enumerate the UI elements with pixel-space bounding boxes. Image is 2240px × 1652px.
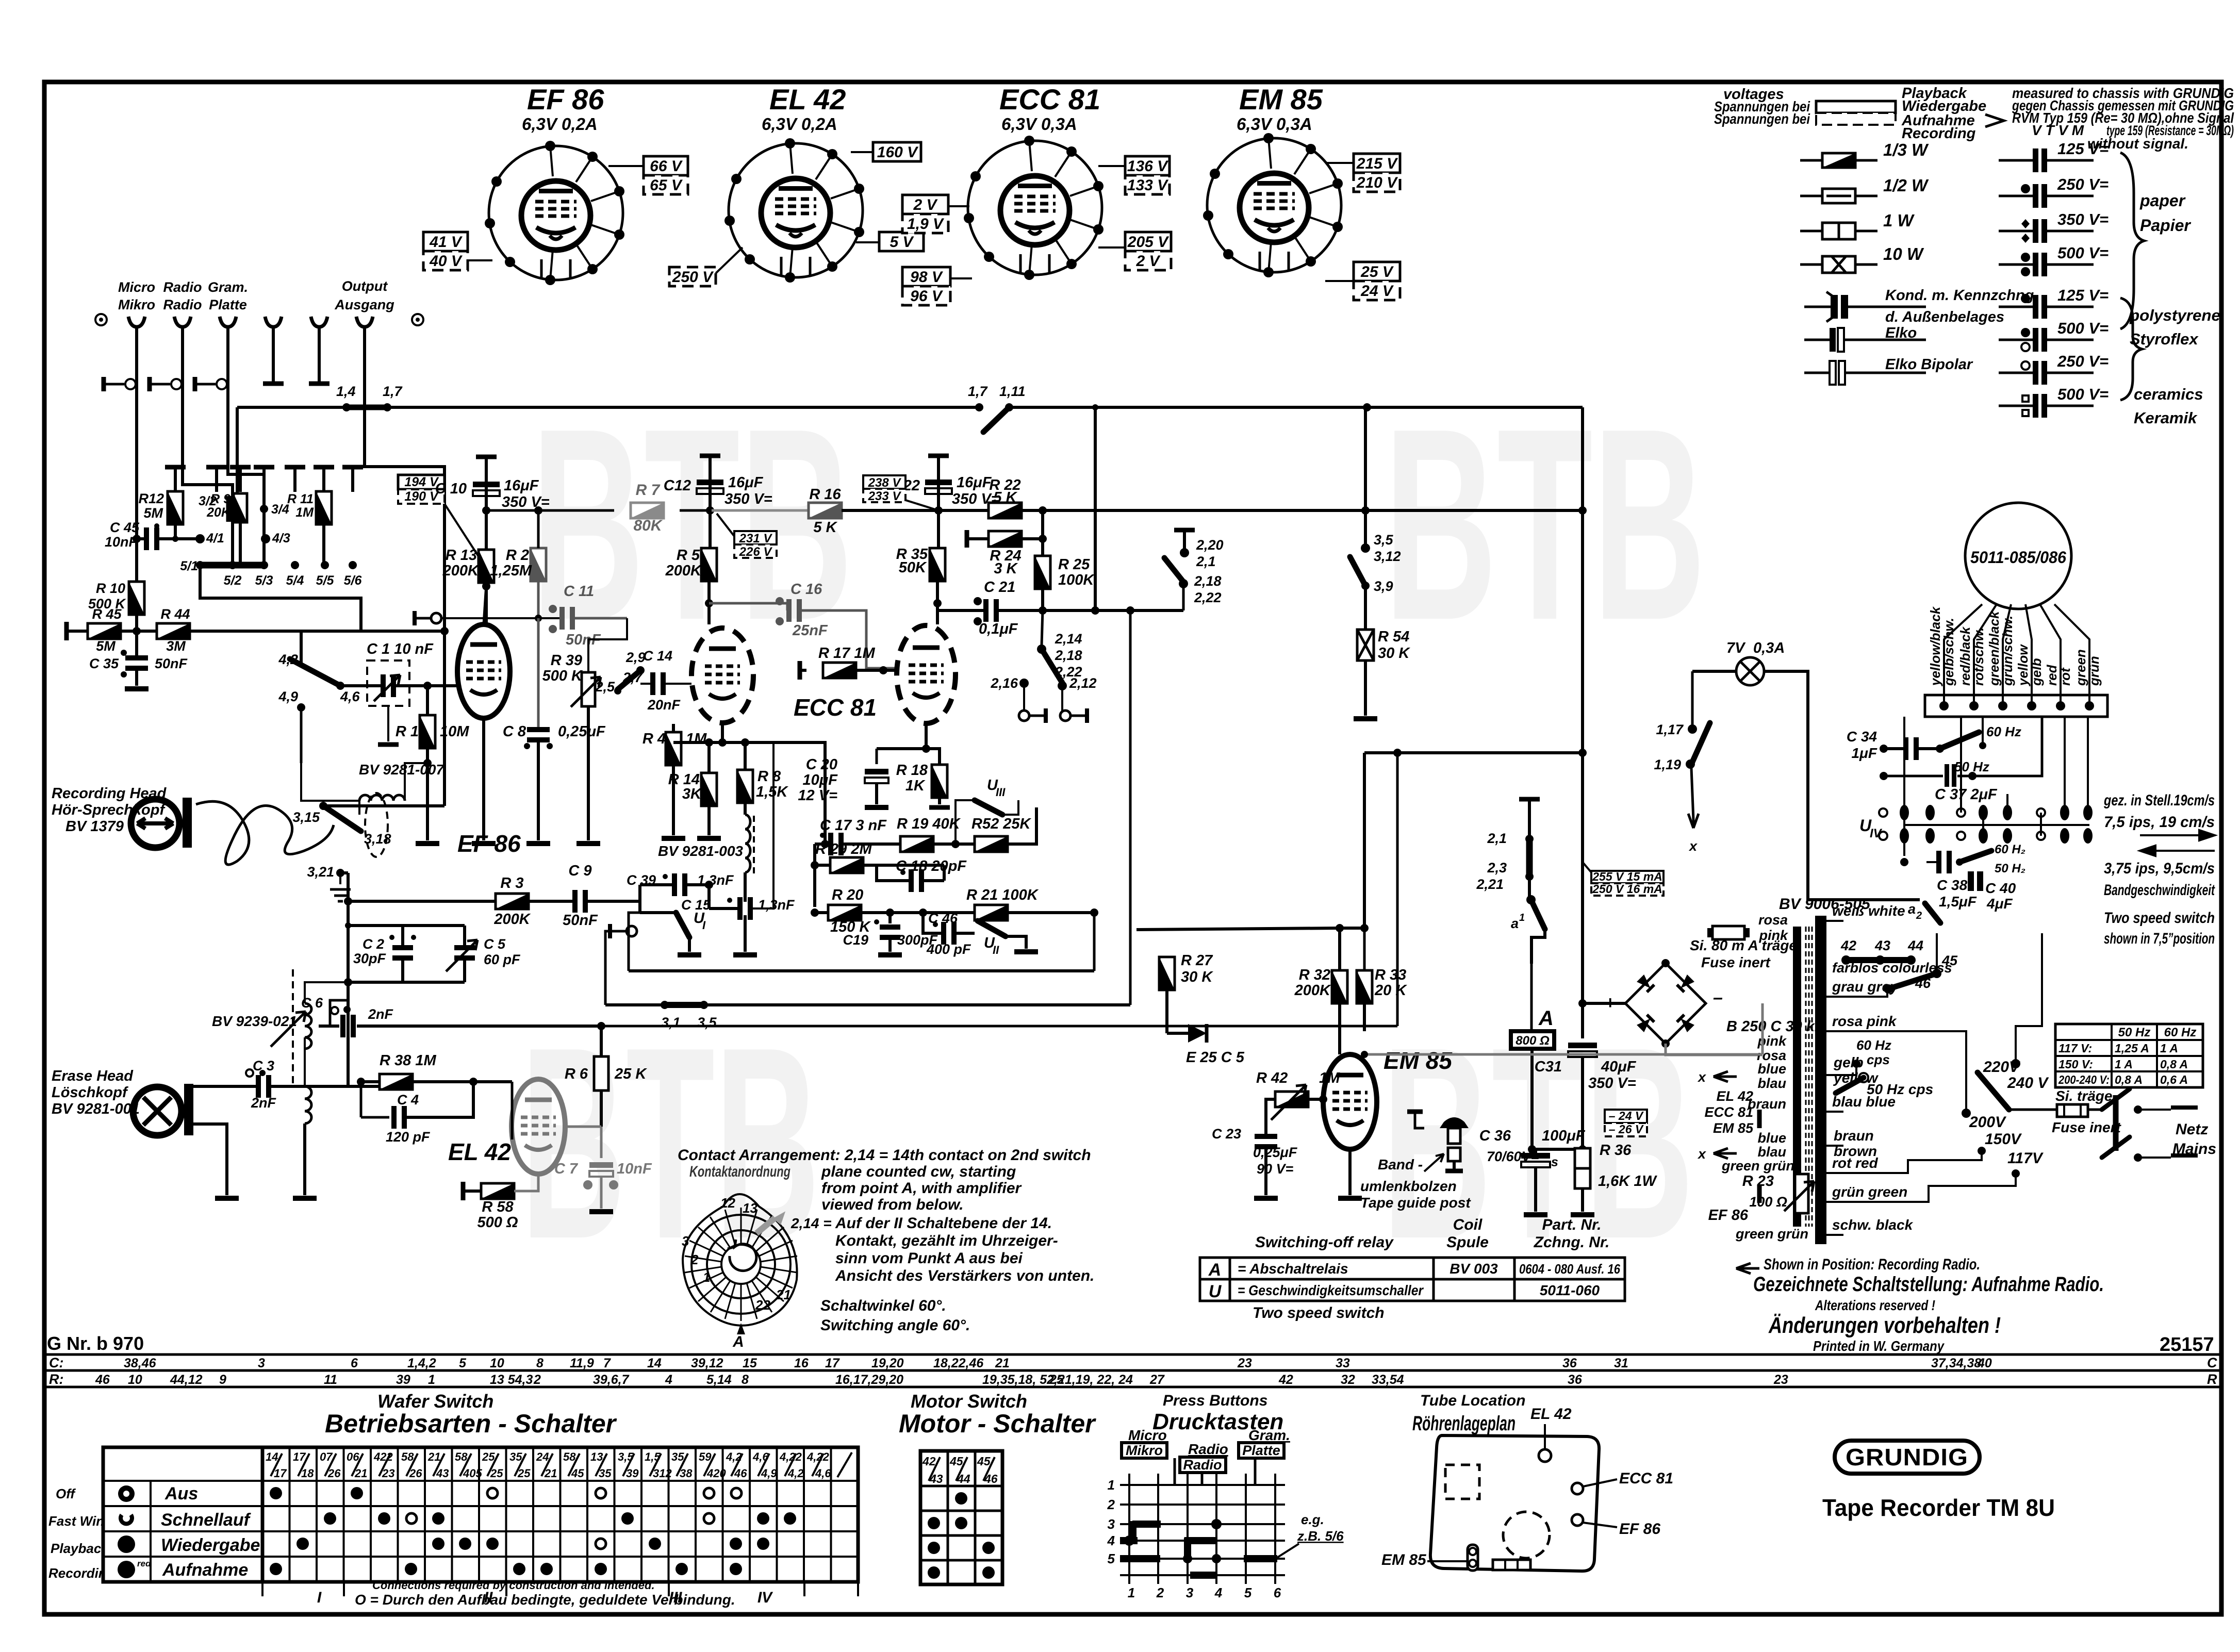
svg-text:45: 45: [949, 1455, 964, 1468]
svg-text:Tube Location: Tube Location: [1420, 1392, 1525, 1409]
svg-text:14: 14: [266, 1450, 278, 1463]
fuse table: [2055, 1024, 2203, 1087]
resistor R27 30K: [1159, 957, 1175, 990]
capacitor C2 30pF: [348, 924, 465, 927]
svg-text:25: 25: [1049, 1373, 1064, 1387]
wire rail2 gray: [710, 509, 809, 512]
svg-text:II: II: [993, 944, 999, 956]
svg-text:rosa: rosa: [1758, 912, 1788, 928]
svg-text:pink: pink: [1758, 928, 1788, 943]
svg-text:x: x: [1697, 1146, 1706, 1162]
svg-text:V T V M: V T V M: [2032, 122, 2084, 138]
ECC81 voltage box 2V/1,9V: [902, 195, 948, 214]
capacitor C19 300pF: [888, 913, 892, 923]
contact 1,17 1,19: [1688, 724, 1697, 734]
bank tbar: [314, 465, 334, 470]
svg-text:Gezeichnete Schaltstellung:: Gezeichnete Schaltstellung: Aufnahme Rad…: [1753, 1273, 2104, 1296]
svg-text:viewed from below.: viewed from below.: [821, 1196, 964, 1213]
svg-text:R 42: R 42: [1256, 1070, 1288, 1086]
svg-text:1,5K: 1,5K: [756, 784, 788, 800]
svg-text:1: 1: [428, 1373, 435, 1387]
svg-text:36: 36: [1562, 1356, 1577, 1370]
svg-text:Kontakt, gezählt im Uhrzeige: Kontakt, gezählt im Uhrzeiger-: [835, 1232, 1058, 1249]
svg-text:205 V: 205 V: [1127, 234, 1170, 251]
switch 60/50Hz upper: [1936, 745, 1944, 753]
UIV row lines: [1904, 824, 2089, 826]
svg-text:120 pF: 120 pF: [386, 1129, 431, 1145]
legend cap kennzeichnung: [1804, 306, 1926, 308]
svg-text:Radio: Radio: [163, 279, 202, 295]
press grid: [1128, 1474, 1130, 1584]
svg-text:25 V: 25 V: [1360, 263, 1394, 280]
svg-text:5 K: 5 K: [813, 519, 837, 536]
svg-text:Tape guide post: Tape guide post: [1360, 1195, 1471, 1211]
input jack 6: [356, 317, 373, 327]
svg-text:Elko Bipolar: Elko Bipolar: [1885, 356, 1973, 373]
svg-text:rot/schw.: rot/schw.: [1971, 627, 1986, 686]
contact wheel: [683, 1194, 797, 1326]
svg-text:e.g.: e.g.: [1301, 1512, 1324, 1527]
svg-text:C 10: C 10: [435, 481, 467, 497]
svg-text:2 V: 2 V: [1135, 253, 1161, 270]
svg-text:from point A, with amplifi: from point A, with amplifier: [821, 1180, 1023, 1197]
svg-text:C31: C31: [1535, 1059, 1562, 1075]
svg-text:plane counted cw, starting: plane counted cw, starting: [821, 1163, 1016, 1180]
svg-text:C 9: C 9: [568, 863, 591, 879]
coil BV9281-007: [359, 795, 405, 801]
svg-text:4,22: 4,22: [779, 1450, 802, 1463]
svg-text:blau: blau: [1757, 1144, 1786, 1160]
svg-text:15: 15: [743, 1356, 757, 1370]
svg-text:1,25M: 1,25M: [490, 563, 532, 579]
svg-text:3,21: 3,21: [307, 864, 334, 880]
svg-text:EM 85: EM 85: [1381, 1551, 1427, 1568]
coil to head: [305, 1086, 311, 1124]
svg-text:5/3: 5/3: [255, 573, 273, 588]
svg-text:24: 24: [536, 1450, 549, 1463]
C/R row lines: [44, 1354, 2221, 1387]
svg-text:2,18: 2,18: [1055, 648, 1082, 663]
svg-text:233 V: 233 V: [868, 489, 902, 503]
svg-text:C 40: C 40: [1985, 880, 2016, 896]
svg-text:a: a: [1511, 916, 1519, 931]
EM85 box wires: [1325, 163, 1354, 281]
svg-text:C 20: C 20: [806, 756, 837, 773]
bank tbar: [254, 465, 274, 470]
svg-text:12: 12: [720, 1195, 735, 1211]
svg-text:Netz: Netz: [2176, 1121, 2208, 1138]
svg-text:1M: 1M: [1319, 1070, 1340, 1086]
svg-text:Switching angle 60°.: Switching angle 60°.: [820, 1317, 970, 1334]
svg-text:3: 3: [682, 1233, 689, 1249]
svg-text:60 pF: 60 pF: [484, 952, 521, 967]
svg-text:1,11: 1,11: [999, 384, 1026, 399]
contact 3/4: [260, 505, 268, 513]
svg-text:EF 86: EF 86: [1708, 1207, 1749, 1224]
svg-text:C 37 2μF: C 37 2μF: [1935, 786, 1998, 803]
svg-text:weiß white: weiß white: [1832, 903, 1905, 919]
svg-text:2 V: 2 V: [913, 196, 938, 213]
EM85 tube: [1323, 1054, 1377, 1149]
legend voltage sample box: [1816, 101, 1896, 113]
contact 1,4 1,7: [342, 403, 351, 411]
svg-text:Styroflex: Styroflex: [2130, 330, 2199, 348]
svg-text:200K: 200K: [1294, 982, 1331, 999]
svg-text:44: 44: [1907, 938, 1923, 953]
svg-text:grün: grün: [2086, 656, 2102, 686]
capacitor C7 10nF gray: [600, 1127, 603, 1158]
svg-text:1,17: 1,17: [1656, 722, 1684, 737]
svg-text:4,2: 4,2: [787, 1467, 804, 1480]
svg-text:50 Hz: 50 Hz: [2118, 1026, 2151, 1039]
svg-text:R 58: R 58: [482, 1199, 514, 1215]
svg-text:Ausgang: Ausgang: [334, 297, 394, 312]
svg-text:4/3: 4/3: [272, 531, 290, 546]
tube base ECC81 outer circle: [968, 141, 1102, 275]
contact 2,20 2,1: [1174, 528, 1195, 533]
svg-text:133 V: 133 V: [1127, 177, 1169, 194]
jack5 stub: [318, 348, 321, 382]
svg-text:Shown in Position: Recording: Shown in Position: Recording Radio.: [1764, 1256, 1980, 1273]
svg-text:ECC 81: ECC 81: [1704, 1104, 1753, 1120]
connector strip: [1493, 1560, 1530, 1570]
contact 3,5 3,12 3,9: [1364, 407, 1367, 548]
svg-text:33,54: 33,54: [1372, 1373, 1404, 1387]
svg-text:4μF: 4μF: [1986, 896, 2013, 912]
svg-text:C 34: C 34: [1847, 729, 1877, 745]
svg-text:38,46: 38,46: [124, 1356, 157, 1370]
svg-text:16: 16: [794, 1356, 809, 1370]
svg-text:45: 45: [977, 1455, 991, 1468]
capacitor C23 0,25uF: [1255, 1134, 1277, 1139]
svg-text:C 14: C 14: [643, 648, 672, 664]
svg-text:420: 420: [706, 1467, 726, 1480]
erase osc coil: [305, 1003, 311, 1049]
svg-text:Spule: Spule: [1446, 1234, 1489, 1251]
legend brace styroflex: [2120, 298, 2142, 400]
svg-text:C19: C19: [843, 932, 868, 948]
EL42 voltage box 250V: [669, 267, 716, 286]
capacitor C35 50nF: [135, 654, 138, 657]
resistor R9 20K: [234, 493, 247, 522]
tube base EF86 inner circle: [521, 181, 590, 250]
svg-text:Platte: Platte: [209, 297, 247, 312]
svg-text:150V: 150V: [1985, 1131, 2022, 1148]
svg-text:2,18: 2,18: [1194, 573, 1222, 589]
svg-text:3: 3: [1186, 1585, 1194, 1600]
legend cap Elko: [1804, 339, 1926, 341]
svg-text:1,7: 1,7: [383, 384, 403, 399]
svg-text:136 V: 136 V: [1127, 158, 1169, 175]
svg-text:2,12: 2,12: [1069, 675, 1097, 691]
svg-text:A: A: [1538, 1007, 1554, 1030]
svg-text:s: s: [1551, 1155, 1558, 1169]
EM85 voltage box 25V/24V: [1354, 262, 1400, 281]
svg-text:5,14: 5,14: [706, 1373, 732, 1387]
svg-text:R 10: R 10: [96, 581, 125, 596]
svg-text:R 36: R 36: [1600, 1142, 1632, 1159]
svg-text:C 8: C 8: [503, 723, 526, 740]
svg-text:EM 85: EM 85: [1713, 1120, 1754, 1136]
EF86 tube: [457, 624, 510, 718]
svg-text:BV 003: BV 003: [1450, 1261, 1498, 1277]
svg-text:22: 22: [755, 1297, 770, 1313]
svg-text:Radio: Radio: [1188, 1441, 1228, 1457]
svg-text:Radio: Radio: [163, 297, 202, 312]
svg-text:GRUNDIG: GRUNDIG: [1846, 1444, 1968, 1471]
switch a2: [1925, 903, 1940, 923]
voltage box 194V/190V: [398, 475, 444, 489]
svg-text:350 V=: 350 V=: [1588, 1075, 1636, 1092]
svg-text:41 V: 41 V: [429, 234, 463, 251]
bank to lower wire: [200, 565, 361, 631]
svg-text:10M: 10M: [440, 723, 469, 740]
svg-text:Elko: Elko: [1885, 325, 1917, 341]
svg-text:80K: 80K: [633, 517, 663, 534]
svg-text:3: 3: [258, 1356, 265, 1370]
svg-text:1μF: 1μF: [1851, 745, 1877, 761]
svg-text:Löschkopf: Löschkopf: [52, 1084, 129, 1101]
thick traces: [1132, 1521, 1161, 1528]
svg-text:21: 21: [354, 1467, 367, 1480]
svg-text:Gram.: Gram.: [208, 279, 248, 295]
svg-text:0,3A: 0,3A: [1753, 640, 1785, 656]
svg-text:19,20: 19,20: [871, 1356, 904, 1370]
svg-text:800 Ω: 800 Ω: [1516, 1034, 1550, 1048]
svg-text:60 Hz: 60 Hz: [1986, 724, 2021, 739]
svg-text:R 27: R 27: [1181, 952, 1213, 969]
svg-text:z.B. 5/6: z.B. 5/6: [1297, 1528, 1344, 1544]
svg-text:grün/schw.: grün/schw.: [2000, 616, 2015, 686]
svg-text:5: 5: [459, 1356, 467, 1370]
svg-text:R 54: R 54: [1378, 629, 1409, 645]
capacitor C4 120pF: [360, 1082, 363, 1117]
EL42 voltage box 5V: [879, 232, 924, 251]
svg-text:50nF: 50nF: [563, 912, 598, 929]
EF86 hole: [1572, 1514, 1583, 1526]
svg-text:5/5: 5/5: [316, 573, 335, 588]
resistor R24 3K: [965, 530, 969, 548]
svg-text:200-240 V:: 200-240 V:: [2058, 1073, 2110, 1086]
svg-text:3: 3: [1108, 1516, 1115, 1532]
resistor R2 1,25M: [531, 548, 546, 581]
tube base EM85 inner circle: [1240, 173, 1309, 242]
coil BV9281-003: [745, 815, 750, 872]
svg-text:O = Durch den Aufbau beding: O = Durch den Aufbau bedingte, geduldete…: [355, 1592, 735, 1608]
transformer core: [1793, 927, 1801, 1227]
svg-text:Aufnahme: Aufnahme: [162, 1560, 248, 1580]
svg-text:42: 42: [1840, 938, 1856, 953]
svg-text:18: 18: [301, 1467, 314, 1480]
svg-text:5: 5: [1244, 1585, 1252, 1600]
svg-text:6,3V 0,3A: 6,3V 0,3A: [1237, 114, 1312, 134]
input contact 1: [105, 383, 124, 386]
resistor R10 500K: [129, 582, 144, 615]
svg-text:350 V=: 350 V=: [724, 491, 772, 507]
svg-text:2,21: 2,21: [1476, 877, 1504, 892]
input jack 1: [128, 317, 145, 327]
svg-text:BV 9239-021: BV 9239-021: [212, 1013, 297, 1029]
svg-text:EM 85: EM 85: [1383, 1047, 1453, 1074]
svg-text:8: 8: [742, 1373, 749, 1387]
svg-text:250 V 16 mA: 250 V 16 mA: [1592, 882, 1662, 896]
output jack wire: [365, 348, 444, 806]
svg-text:1K: 1K: [905, 778, 926, 794]
svg-text:46: 46: [1915, 976, 1931, 991]
jack4 stub: [272, 348, 275, 382]
svg-text:C 21: C 21: [984, 579, 1015, 596]
EF86 box wires: [468, 166, 644, 260]
svg-text:24 V: 24 V: [1360, 283, 1394, 300]
svg-text:R:: R:: [49, 1372, 64, 1387]
svg-text:50nF: 50nF: [155, 656, 188, 671]
gray link wires: [1364, 1053, 1763, 1056]
dashed square: [1445, 1465, 1479, 1499]
svg-text:R 45: R 45: [92, 606, 122, 622]
svg-text:EL 42: EL 42: [769, 83, 846, 115]
EL42 tube gray: [512, 1079, 565, 1174]
svg-text:1,25 A: 1,25 A: [2115, 1042, 2149, 1055]
ECC81 triode 1: [691, 628, 753, 723]
ECC81 voltage box 205V/2V: [1125, 232, 1171, 251]
node row 1440: [673, 742, 825, 844]
svg-text:cps: cps: [1867, 1052, 1890, 1067]
svg-text:5: 5: [1108, 1551, 1115, 1566]
svg-text:4/1: 4/1: [206, 531, 224, 546]
rail2 B+: [486, 509, 614, 512]
legend capacitor 125 V= row: [1999, 306, 2094, 308]
svg-text:gelb: gelb: [2029, 658, 2044, 686]
EL42 voltage box 160V: [873, 142, 921, 161]
svg-text:2,9: 2,9: [625, 650, 646, 665]
svg-text:0,8 A: 0,8 A: [2115, 1073, 2143, 1086]
input contact 2: [151, 383, 170, 386]
svg-text:10: 10: [490, 1356, 504, 1370]
resistor R45 5M: [64, 622, 69, 640]
svg-text:umlenkbolzen: umlenkbolzen: [1360, 1178, 1457, 1194]
svg-text:III: III: [996, 786, 1006, 799]
svg-text:6,3V 0,3A: 6,3V 0,3A: [1001, 114, 1077, 134]
svg-text:ECC 81: ECC 81: [1619, 1470, 1673, 1487]
svg-text:200K: 200K: [665, 563, 702, 579]
svg-text:R 3: R 3: [500, 875, 523, 891]
svg-text:BTB: BTB: [1384, 372, 1706, 677]
svg-text:50 H₂: 50 H₂: [1995, 862, 2025, 875]
gridcap C9 out: [611, 930, 625, 933]
svg-text:5/2: 5/2: [224, 573, 242, 588]
svg-text:125 V=: 125 V=: [2057, 140, 2109, 158]
svg-text:3,12: 3,12: [1374, 549, 1401, 564]
svg-text:Auf der II Schaltebene der: Auf der II Schaltebene der 14.: [835, 1215, 1052, 1232]
svg-text:C 16: C 16: [790, 581, 822, 598]
svg-text:Wafer Switch: Wafer Switch: [377, 1391, 493, 1412]
resistor R13 200K: [479, 550, 494, 583]
svg-text:2,20: 2,20: [1196, 537, 1224, 553]
terminal ring left: [95, 314, 107, 325]
svg-text:5 K: 5 K: [993, 489, 1017, 506]
wire C6 to R6: [382, 1025, 601, 1028]
bank tbar: [285, 465, 305, 470]
bank tbar: [165, 465, 186, 470]
svg-text:13 54,3: 13 54,3: [490, 1373, 533, 1387]
svg-text:4,9: 4,9: [278, 689, 298, 704]
svg-text:Schaltwinkel 60°.: Schaltwinkel 60°.: [820, 1297, 946, 1314]
EM85 voltage box 215V/210V: [1354, 154, 1400, 173]
svg-text:60 Hz: 60 Hz: [2164, 1026, 2197, 1039]
contact 1,7 1,11: [975, 403, 983, 411]
capacitor C6 2nF: [330, 982, 348, 1026]
svg-text:405: 405: [463, 1467, 482, 1480]
svg-text:EL 42: EL 42: [448, 1138, 511, 1165]
svg-text:21: 21: [776, 1287, 791, 1302]
svg-text:150 V:: 150 V:: [2058, 1058, 2093, 1071]
svg-text:10 W: 10 W: [1883, 244, 1924, 263]
svg-text:0,6 A: 0,6 A: [2160, 1073, 2188, 1086]
svg-text:96 V: 96 V: [910, 288, 944, 305]
svg-text:2,16: 2,16: [990, 675, 1018, 691]
rail1 vertical 2124: [1094, 407, 1097, 610]
svg-text:3,9: 3,9: [1374, 579, 1393, 594]
svg-text:a: a: [1908, 901, 1916, 917]
svg-text:Aus: Aus: [164, 1484, 198, 1504]
svg-text:0604 - 080 Ausf. 16: 0604 - 080 Ausf. 16: [1519, 1261, 1620, 1277]
svg-text:2,14: 2,14: [1055, 631, 1082, 647]
svg-text:C 4: C 4: [397, 1092, 419, 1108]
svg-text:5011-085/086: 5011-085/086: [1970, 548, 2066, 567]
svg-text:Mains: Mains: [2172, 1141, 2216, 1158]
wire grid EL42: [511, 1082, 514, 1139]
svg-text:3,15: 3,15: [292, 810, 320, 825]
svg-text:350 V=: 350 V=: [2057, 210, 2109, 228]
svg-text:46: 46: [95, 1373, 110, 1387]
svg-text:1: 1: [703, 1269, 710, 1285]
svg-text:250 V=: 250 V=: [2057, 175, 2109, 193]
resistor R4 1M: [666, 732, 681, 765]
svg-text:rot: rot: [2057, 667, 2073, 686]
svg-text:5M: 5M: [143, 505, 163, 521]
svg-text:5/6: 5/6: [344, 573, 363, 588]
capacitor C36 100uF: [1532, 1148, 1583, 1151]
svg-text:Schnellauf: Schnellauf: [161, 1510, 252, 1530]
svg-text:500 K: 500 K: [542, 668, 583, 684]
svg-text:C 17 3 nF: C 17 3 nF: [820, 817, 887, 834]
svg-text:31: 31: [1614, 1356, 1628, 1370]
svg-text:braun: braun: [1748, 1096, 1786, 1112]
svg-text:C 36: C 36: [1479, 1128, 1511, 1144]
svg-text:Micro: Micro: [1128, 1427, 1167, 1443]
svg-text:schw. black: schw. black: [1832, 1217, 1914, 1233]
ECC81 hole: [1572, 1483, 1583, 1494]
svg-text:6: 6: [351, 1356, 358, 1370]
svg-text:42: 42: [1278, 1373, 1293, 1387]
svg-text:23: 23: [1773, 1373, 1788, 1387]
svg-text:50K: 50K: [899, 559, 927, 576]
svg-text:BV 9281-007: BV 9281-007: [359, 762, 444, 778]
svg-text:10nF: 10nF: [105, 534, 138, 550]
svg-text:39,12: 39,12: [691, 1356, 723, 1370]
tube base EL42 outer circle: [729, 143, 863, 277]
svg-text:30 K: 30 K: [1378, 645, 1410, 662]
svg-text:25: 25: [490, 1467, 503, 1480]
svg-text:x: x: [1688, 838, 1698, 854]
x arrow left 1: [1714, 1071, 1737, 1082]
svg-text:3,5: 3,5: [697, 1015, 717, 1030]
svg-text:3,1: 3,1: [661, 1015, 681, 1030]
x arrow left 2: [1714, 1148, 1737, 1159]
svg-text:60 H₂: 60 H₂: [1995, 842, 2025, 856]
svg-text:1M: 1M: [686, 731, 707, 747]
resistor R6 25K: [594, 1056, 608, 1091]
